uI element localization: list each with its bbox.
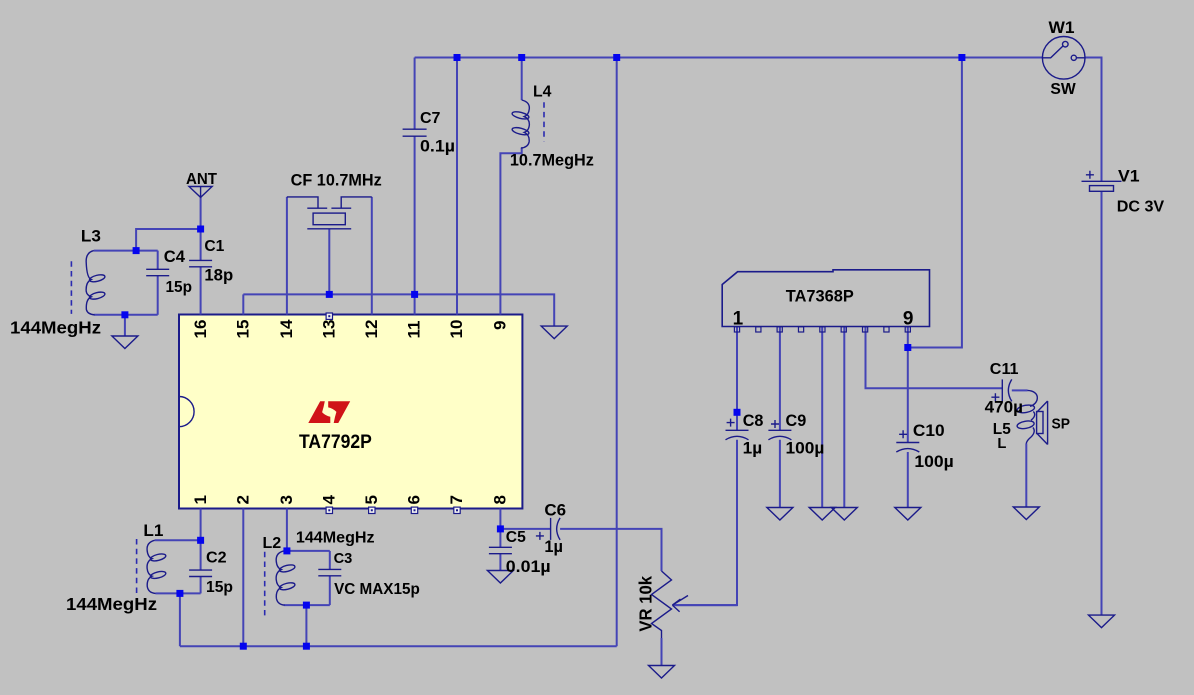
- wire wiper to C8 node: [672, 604, 737, 606]
- svg-text:11: 11: [405, 321, 424, 339]
- ground under C9: [767, 508, 793, 521]
- wire pin6 U2 to ground: [843, 327, 845, 508]
- node pin8 C5 C6: [497, 525, 504, 532]
- label L4: [533, 83, 552, 100]
- U1 bottom pin numbers: [191, 495, 510, 505]
- svg-text:1µ: 1µ: [743, 438, 763, 457]
- wire VR to ground: [661, 638, 663, 666]
- svg-text:C5: C5: [506, 529, 526, 546]
- svg-text:1: 1: [191, 495, 210, 504]
- wire rail to C7: [414, 58, 416, 130]
- svg-text:144MegHz: 144MegHz: [66, 594, 157, 614]
- svg-text:10.7MegHz: 10.7MegHz: [510, 151, 594, 169]
- svg-text:470µ: 470µ: [985, 398, 1023, 417]
- label SP: [1052, 416, 1071, 432]
- svg-text:C2: C2: [206, 549, 227, 567]
- svg-text:14: 14: [277, 319, 296, 338]
- label C1 value: [204, 266, 233, 284]
- wire L2 C3 bottom: [284, 604, 330, 606]
- label C10 value: [914, 452, 953, 471]
- wire L4 to pin9: [500, 148, 521, 315]
- label C11: [990, 360, 1019, 378]
- label C6: [544, 501, 566, 520]
- svg-text:L4: L4: [533, 83, 552, 100]
- label C3 value: [334, 581, 420, 598]
- svg-text:L1: L1: [143, 522, 163, 540]
- svg-text:ANT: ANT: [186, 171, 218, 188]
- inductor L1 coil: [137, 539, 167, 597]
- svg-text:9: 9: [903, 309, 914, 330]
- svg-text:15p: 15p: [206, 579, 233, 596]
- svg-text:1: 1: [733, 309, 744, 330]
- wire pin1 U2 to C8: [736, 327, 738, 431]
- wire L3 C4 bottom: [94, 314, 158, 316]
- label L4 freq: [510, 151, 594, 169]
- svg-text:W1: W1: [1049, 18, 1075, 37]
- svg-text:100µ: 100µ: [786, 438, 825, 457]
- wire pin5 U2 to ground: [821, 327, 823, 508]
- svg-text:C11: C11: [990, 360, 1019, 378]
- svg-text:6: 6: [405, 495, 424, 504]
- svg-text:5: 5: [362, 495, 381, 504]
- label C2 value: [206, 579, 233, 596]
- wire C1 to pin16: [200, 267, 202, 315]
- node bottom rail pin2: [240, 643, 247, 650]
- label C8 value: [743, 438, 763, 457]
- inductor L5 voice coil: [1017, 390, 1038, 443]
- capacitor C4 symbol: [146, 269, 169, 275]
- wire C2 branch: [200, 540, 202, 570]
- label L2: [263, 535, 282, 552]
- svg-text:15p: 15p: [166, 279, 193, 296]
- ground under L3 tank: [112, 336, 138, 349]
- svg-text:VR 10k: VR 10k: [636, 576, 656, 632]
- capacitor C11 symbol: [991, 379, 1011, 401]
- svg-text:100µ: 100µ: [914, 452, 953, 471]
- wire switch to battery: [1085, 58, 1102, 182]
- node L2 bottom: [303, 602, 310, 609]
- wire rail to V+ node: [908, 58, 962, 348]
- svg-text:VC MAX15p: VC MAX15p: [334, 581, 420, 598]
- node pin1 U2 C8: [734, 409, 741, 416]
- wire pin8 to C5: [499, 529, 501, 547]
- svg-text:L: L: [997, 436, 1006, 452]
- wire C11 to speaker coil: [1012, 389, 1028, 391]
- inductor L3 coil: [71, 251, 105, 315]
- IC U2 TA7368P body: [722, 270, 929, 327]
- svg-text:15: 15: [234, 320, 253, 339]
- label C9: [786, 412, 807, 430]
- label SW: [1050, 81, 1075, 98]
- wire L2 tank to bottom rail: [305, 605, 307, 646]
- svg-text:3: 3: [277, 495, 296, 504]
- label C8: [743, 412, 764, 430]
- wire ground bus: [243, 294, 554, 326]
- capacitor C3 symbol: [318, 569, 341, 575]
- label C4 value: [166, 279, 193, 296]
- node rail right drop: [613, 54, 620, 61]
- wire pin1 to tank L1: [200, 509, 202, 541]
- label U2 pin1: [733, 309, 744, 330]
- wire rail down right side: [616, 58, 618, 647]
- svg-text:SP: SP: [1052, 416, 1071, 432]
- svg-text:TA7368P: TA7368P: [786, 286, 854, 305]
- label CF: [291, 172, 382, 190]
- svg-text:C8: C8: [743, 412, 764, 430]
- svg-text:C10: C10: [913, 421, 945, 440]
- label C2: [206, 549, 227, 567]
- svg-text:C4: C4: [164, 248, 186, 266]
- node rail pin10: [454, 54, 461, 61]
- LT logo on U1: [308, 401, 350, 423]
- svg-text:144MegHz: 144MegHz: [10, 318, 101, 338]
- wire L1 C2 bottom: [156, 592, 201, 594]
- label L5: [993, 421, 1011, 438]
- svg-text:0.1µ: 0.1µ: [420, 137, 455, 156]
- label C4: [164, 248, 186, 266]
- wire C10 to ground: [907, 452, 909, 508]
- wire C5 to ground: [499, 554, 501, 571]
- capacitor C1 symbol: [189, 260, 212, 266]
- wire pin8 down: [499, 509, 501, 529]
- svg-text:144MegHz: 144MegHz: [296, 529, 375, 547]
- svg-text:L3: L3: [81, 227, 101, 245]
- label C7 value: [420, 137, 455, 156]
- wire top supply rail: [415, 57, 1043, 59]
- switch W1 symbol: [1042, 37, 1085, 80]
- capacitor C6 symbol: [536, 518, 560, 540]
- capacitor C2 symbol: [189, 570, 212, 576]
- label C3: [334, 551, 353, 567]
- U1 top pin numbers: [191, 319, 510, 338]
- ceramic filter CF symbol: [287, 197, 372, 229]
- ground under C5: [487, 571, 513, 584]
- label C7: [420, 110, 441, 127]
- wire C6 to VR: [560, 529, 661, 571]
- ground under speaker: [1013, 507, 1039, 520]
- node L1 bottom: [176, 590, 183, 597]
- label L3: [81, 227, 101, 245]
- wire ANT to C1: [200, 229, 202, 260]
- label C5: [506, 529, 526, 546]
- svg-text:16: 16: [191, 320, 210, 339]
- svg-text:7: 7: [447, 495, 466, 504]
- label C10: [913, 421, 945, 440]
- ground under battery: [1089, 615, 1115, 628]
- svg-text:DC 3V: DC 3V: [1117, 198, 1165, 216]
- svg-text:9: 9: [491, 321, 510, 330]
- wire C2 bottom: [200, 577, 202, 594]
- label W1: [1049, 18, 1075, 37]
- svg-text:10: 10: [447, 320, 466, 339]
- svg-text:V1: V1: [1118, 166, 1140, 185]
- ground under C10: [895, 508, 921, 521]
- inductor L4 coil: [511, 100, 544, 148]
- label U2 pin9: [903, 309, 914, 330]
- svg-text:13: 13: [320, 320, 339, 339]
- capacitor C5 symbol: [489, 547, 512, 553]
- ground under VR: [649, 666, 675, 679]
- node L1 top: [197, 537, 204, 544]
- svg-text:TA7792P: TA7792P: [299, 432, 372, 453]
- wire ANT to tank: [136, 229, 201, 251]
- label L1: [143, 522, 163, 540]
- label U1 title: [299, 432, 372, 453]
- wire L1 tank to bottom rail: [179, 593, 181, 646]
- label ANT: [186, 171, 218, 188]
- svg-text:4: 4: [320, 495, 339, 505]
- node L2 top: [283, 547, 290, 554]
- label C6 value: [544, 538, 563, 556]
- svg-text:C7: C7: [420, 110, 441, 127]
- label L1 freq: [66, 594, 157, 614]
- ground under pin5 U2: [809, 508, 835, 521]
- svg-text:2: 2: [234, 495, 253, 504]
- IC U1 TA7792P body: [179, 315, 522, 509]
- wire bottom rail: [180, 645, 617, 647]
- svg-text:SW: SW: [1050, 81, 1075, 98]
- wire C3 bottom: [329, 576, 331, 605]
- capacitor C8 symbol: [726, 419, 749, 440]
- wire C8 to wiper node: [672, 440, 737, 605]
- node ANT: [197, 226, 204, 233]
- wire rail to L4: [521, 58, 523, 101]
- svg-text:8: 8: [491, 495, 510, 504]
- node rail Vplus: [958, 54, 965, 61]
- svg-text:1µ: 1µ: [544, 538, 563, 556]
- wire CF left lead to pin14: [286, 197, 288, 315]
- label C9 value: [786, 438, 825, 457]
- ground on bus: [541, 326, 567, 339]
- wire pin8 to C6: [500, 528, 550, 530]
- node bus CF: [326, 291, 333, 298]
- label V1: [1118, 166, 1140, 185]
- wire pin3 U2 to C9: [779, 327, 781, 431]
- wire C4 bottom: [157, 276, 159, 315]
- svg-text:C3: C3: [334, 551, 353, 567]
- wire L2 C3 top: [284, 550, 330, 552]
- speaker SP symbol: [1037, 401, 1048, 445]
- label VR value: [636, 576, 656, 632]
- inductor L2 coil: [265, 551, 296, 616]
- label L5 value: [997, 436, 1006, 452]
- wire CF right lead to pin12: [371, 197, 373, 315]
- label C5 value: [506, 557, 551, 576]
- battery V1 symbol: [1082, 171, 1122, 192]
- svg-text:CF 10.7MHz: CF 10.7MHz: [291, 172, 382, 190]
- wire L3 C4 top: [94, 250, 158, 252]
- svg-text:18p: 18p: [204, 266, 233, 284]
- wire pin7 U2 to C11: [866, 327, 1003, 389]
- label V1 value: [1117, 198, 1165, 216]
- svg-text:0.01µ: 0.01µ: [506, 557, 551, 576]
- label L2 freq: [296, 529, 375, 547]
- svg-text:C9: C9: [786, 412, 807, 430]
- wire C3 branch: [329, 551, 331, 570]
- wire ANT lead: [200, 197, 202, 229]
- node L3 bottom: [121, 311, 128, 318]
- ground under pin6 U2: [831, 508, 857, 521]
- wire pin3 to tank L2: [286, 509, 288, 551]
- label L3 freq: [10, 318, 101, 338]
- wire C7 to pin11: [414, 136, 416, 314]
- potentiometer VR 10k symbol: [652, 571, 689, 638]
- U1 unconnected bottom pins: [326, 507, 460, 513]
- wire C4 branch: [157, 251, 159, 270]
- wire node to C10: [907, 348, 909, 443]
- svg-text:C1: C1: [204, 238, 224, 255]
- node bus C7 pin11: [411, 291, 418, 298]
- wire speaker to ground: [1025, 444, 1027, 508]
- antenna ANT symbol: [189, 187, 212, 198]
- svg-text:12: 12: [362, 320, 381, 339]
- wire battery to ground: [1101, 191, 1103, 615]
- wire pin9 U2 stub: [907, 327, 909, 348]
- node Vplus C10: [904, 344, 911, 351]
- wire pin2 to bottom rail: [242, 509, 244, 647]
- node bottom rail L2: [303, 643, 310, 650]
- wire CF center to bus: [328, 229, 330, 295]
- wire tank to ground L3: [124, 315, 126, 336]
- label C11 value: [985, 398, 1023, 417]
- wire rail to pin10: [456, 58, 458, 315]
- U2 pin stubs: [734, 327, 910, 332]
- label U2 title: [786, 286, 854, 305]
- wire bus pin15: [242, 294, 244, 314]
- label C1: [204, 238, 224, 255]
- capacitor C10 symbol: [896, 430, 919, 452]
- node L3 top: [133, 247, 140, 254]
- node rail L4: [518, 54, 525, 61]
- wire L1 C2 top: [155, 539, 201, 541]
- capacitor C9 symbol: [768, 420, 791, 440]
- svg-text:C6: C6: [544, 501, 566, 520]
- svg-text:L2: L2: [263, 535, 282, 552]
- wire C9 to ground: [779, 440, 781, 508]
- capacitor C7 symbol: [403, 129, 427, 136]
- U1 unconnected pin 13: [326, 313, 332, 319]
